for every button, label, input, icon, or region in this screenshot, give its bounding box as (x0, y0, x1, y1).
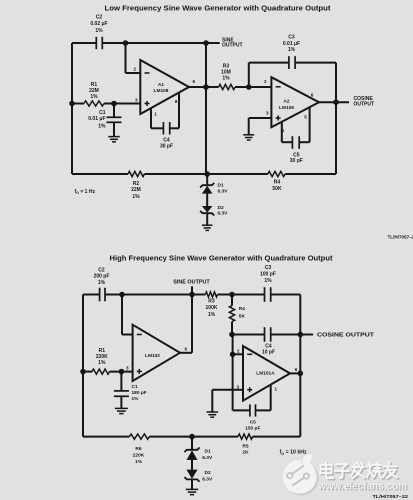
svg-text:D1: D1 (205, 448, 211, 454)
svg-text:1%: 1% (264, 278, 272, 284)
zener diode D1 bottom (184, 448, 199, 453)
wire cosine row (232, 334, 264, 336)
wire to pin 2 of A1 (125, 43, 127, 73)
svg-text:C2: C2 (96, 15, 103, 21)
capacitor C3 (288, 56, 290, 69)
node junction A2 input (246, 84, 252, 90)
svg-text:1: 1 (275, 386, 278, 391)
svg-text:TL/H/7057–22: TL/H/7057–22 (373, 494, 409, 500)
svg-text:2: 2 (237, 349, 240, 354)
svg-text:LM102: LM102 (145, 353, 160, 359)
node junction minus loop (119, 292, 125, 298)
resistor R5 2K (238, 434, 253, 439)
svg-text:www.elecfans.com: www.elecfans.com (317, 480, 407, 492)
resistor R4 50K (268, 171, 285, 176)
svg-text:2: 2 (133, 66, 136, 71)
wire bottom rail (72, 173, 128, 175)
svg-text:D2: D2 (218, 205, 224, 211)
svg-text:D1: D1 (218, 182, 224, 188)
svg-text:C1: C1 (132, 384, 138, 390)
compensation capacitor C4 of A1 (150, 108, 152, 129)
svg-text:5: 5 (304, 114, 307, 119)
node junction C1 bottom (119, 369, 125, 375)
wire top feedback bottom circuit (83, 294, 100, 296)
wire D2 to ground bottom (191, 479, 193, 489)
svg-text:6.3V: 6.3V (218, 211, 229, 217)
svg-text:COSINE OUTPUT: COSINE OUTPUT (317, 333, 375, 339)
svg-text:LM108: LM108 (279, 105, 294, 111)
capacitor C4 10pF (264, 327, 266, 342)
ground below C1 bottom (115, 407, 128, 409)
svg-text:1%: 1% (208, 312, 216, 318)
node junction diode chain (204, 171, 210, 177)
node junction LM102 output (189, 292, 195, 298)
wire LM101A output (290, 372, 300, 374)
svg-text:6: 6 (185, 346, 188, 351)
svg-text:5K: 5K (239, 314, 246, 320)
svg-text:1%: 1% (98, 280, 106, 286)
svg-text:1%: 1% (95, 28, 103, 34)
svg-text:3: 3 (135, 98, 138, 103)
svg-text:180 pF: 180 pF (132, 390, 147, 396)
svg-text:R2: R2 (133, 181, 140, 187)
zener diode D1 (200, 183, 214, 188)
svg-text:6.3V: 6.3V (202, 455, 213, 461)
svg-text:R4: R4 (239, 306, 245, 312)
svg-text:1%: 1% (222, 75, 230, 81)
wire D2 to ground (206, 213, 208, 225)
svg-text:3: 3 (126, 366, 129, 371)
svg-text:1: 1 (154, 112, 157, 117)
svg-text:8: 8 (175, 99, 178, 104)
svg-text:6: 6 (295, 367, 298, 372)
svg-text:1%: 1% (135, 459, 143, 465)
wire D1 to D2 bottom (191, 460, 193, 470)
svg-text:A2: A2 (283, 99, 289, 105)
op-amp A2 LM108 (271, 77, 319, 127)
svg-text:OUTPUT: OUTPUT (222, 43, 243, 49)
node junction sine output (203, 40, 209, 46)
svg-text:R4: R4 (274, 180, 281, 186)
svg-text:1%: 1% (288, 47, 296, 53)
wire to D1 bottom (191, 437, 193, 450)
node junction C4 left (229, 332, 235, 338)
svg-text:TL/H/7057–21: TL/H/7057–21 (388, 234, 413, 239)
resistor R4 5K vertical (229, 292, 235, 298)
resistor R6 220K (129, 434, 149, 439)
svg-text:1%: 1% (90, 94, 98, 100)
capacitor C2 200pF (99, 288, 101, 302)
ground at LM101A pin 3 (207, 411, 219, 413)
svg-text:1%: 1% (132, 194, 140, 200)
svg-text:6.3V: 6.3V (218, 188, 229, 194)
wire A2 pin 3 to ground (249, 117, 272, 119)
compensation capacitor C5 of A2 (281, 122, 283, 143)
op-amp LM102 (133, 325, 180, 381)
node junction cosine output (298, 332, 304, 338)
ground below C1 (108, 136, 120, 138)
svg-text:1%: 1% (98, 360, 106, 366)
svg-text:High Frequency Sine Wave Gener: High Frequency Sine Wave Generator with … (110, 253, 334, 262)
svg-text:R5: R5 (242, 443, 248, 449)
op-amp A1 LM108 (140, 60, 189, 114)
node junction at C2 right (123, 40, 129, 46)
wire minus input LM102 (121, 295, 123, 335)
svg-text:0.02 μF: 0.02 μF (90, 21, 107, 27)
svg-text:6.3V: 6.3V (202, 476, 213, 482)
zener diode D2 bottom (184, 477, 199, 482)
svg-text:30 pF: 30 pF (160, 143, 173, 149)
resistor R1 220K (80, 369, 86, 375)
wire D1 to D2 (206, 194, 208, 206)
svg-text:OUTPUT: OUTPUT (354, 102, 375, 108)
svg-text:LM101A: LM101A (256, 370, 275, 376)
watermark logo circle (283, 454, 319, 496)
svg-text:22M: 22M (131, 187, 141, 193)
resistor R3 100K (192, 294, 205, 296)
wire A2 output (319, 101, 349, 103)
wire right rail down (299, 295, 301, 437)
svg-text:D2: D2 (205, 470, 211, 476)
svg-text:A1: A1 (158, 82, 164, 88)
capacitor C1 (113, 104, 115, 117)
svg-text:6: 6 (193, 79, 196, 84)
wire top feedback (72, 42, 96, 44)
wire LM102 output (180, 352, 192, 354)
svg-text:50K: 50K (272, 186, 282, 192)
svg-text:0.01 μF: 0.01 μF (88, 116, 105, 122)
svg-text:2: 2 (264, 79, 267, 84)
resistor R2 22M (128, 171, 144, 176)
wire C3 to right rail (271, 294, 301, 296)
wire A1 output (189, 86, 219, 88)
ground at A2 pin 3 (243, 134, 254, 136)
svg-text:R3: R3 (208, 298, 215, 304)
svg-text:3: 3 (266, 111, 269, 116)
ground below D2 bottom (186, 488, 199, 490)
svg-text:200 pF: 200 pF (94, 273, 110, 279)
wire A2 feedback loop (248, 63, 250, 87)
svg-text:1%: 1% (132, 396, 140, 402)
svg-text:C3: C3 (265, 265, 272, 271)
svg-text:R6: R6 (135, 446, 141, 452)
wire left rail bottom circuit (82, 295, 84, 437)
svg-text:LM108: LM108 (154, 88, 169, 94)
node junction diode chain bottom (189, 434, 195, 440)
svg-text:220K: 220K (133, 452, 145, 458)
svg-text:6: 6 (311, 92, 314, 97)
resistor R1 22M (69, 101, 75, 107)
zener diode D2 (200, 211, 214, 216)
svg-text:SINE OUTPUT: SINE OUTPUT (173, 279, 210, 285)
node junction C1 (111, 101, 117, 107)
svg-text:C3: C3 (288, 34, 295, 40)
svg-text:2K: 2K (242, 450, 249, 456)
svg-text:Low Frequency Sine Wave Genera: Low Frequency Sine Wave Generator with Q… (105, 4, 332, 13)
op-amp LM101A (243, 346, 290, 401)
wire left rail (71, 43, 73, 174)
svg-text:10 pF: 10 pF (262, 350, 275, 356)
watermark text dianzifashaoyou (321, 462, 399, 479)
wire minus input LM101A (232, 335, 234, 355)
svg-text:100 pF: 100 pF (260, 272, 276, 278)
ground below D2 (202, 224, 213, 226)
svg-text:150 pF: 150 pF (245, 426, 260, 432)
capacitor C1 180pF (120, 372, 122, 391)
svg-text:100K: 100K (206, 305, 218, 311)
wire to D1 (206, 174, 208, 185)
svg-text:C5: C5 (250, 419, 256, 425)
wire A1 output to top rail (205, 43, 207, 174)
wire bottom rail bottom circuit (83, 436, 129, 438)
wire LM101A pin3 to ground (212, 389, 243, 391)
svg-text:fO = 10 kHz: fO = 10 kHz (280, 450, 307, 456)
capacitor C2 (95, 37, 97, 50)
compensation capacitor C5 150pF (232, 354, 234, 410)
capacitor C3 100pF (264, 287, 266, 302)
svg-text:30 pF: 30 pF (290, 158, 303, 164)
resistor R3 10M (219, 84, 235, 89)
svg-text:1%: 1% (98, 124, 106, 130)
